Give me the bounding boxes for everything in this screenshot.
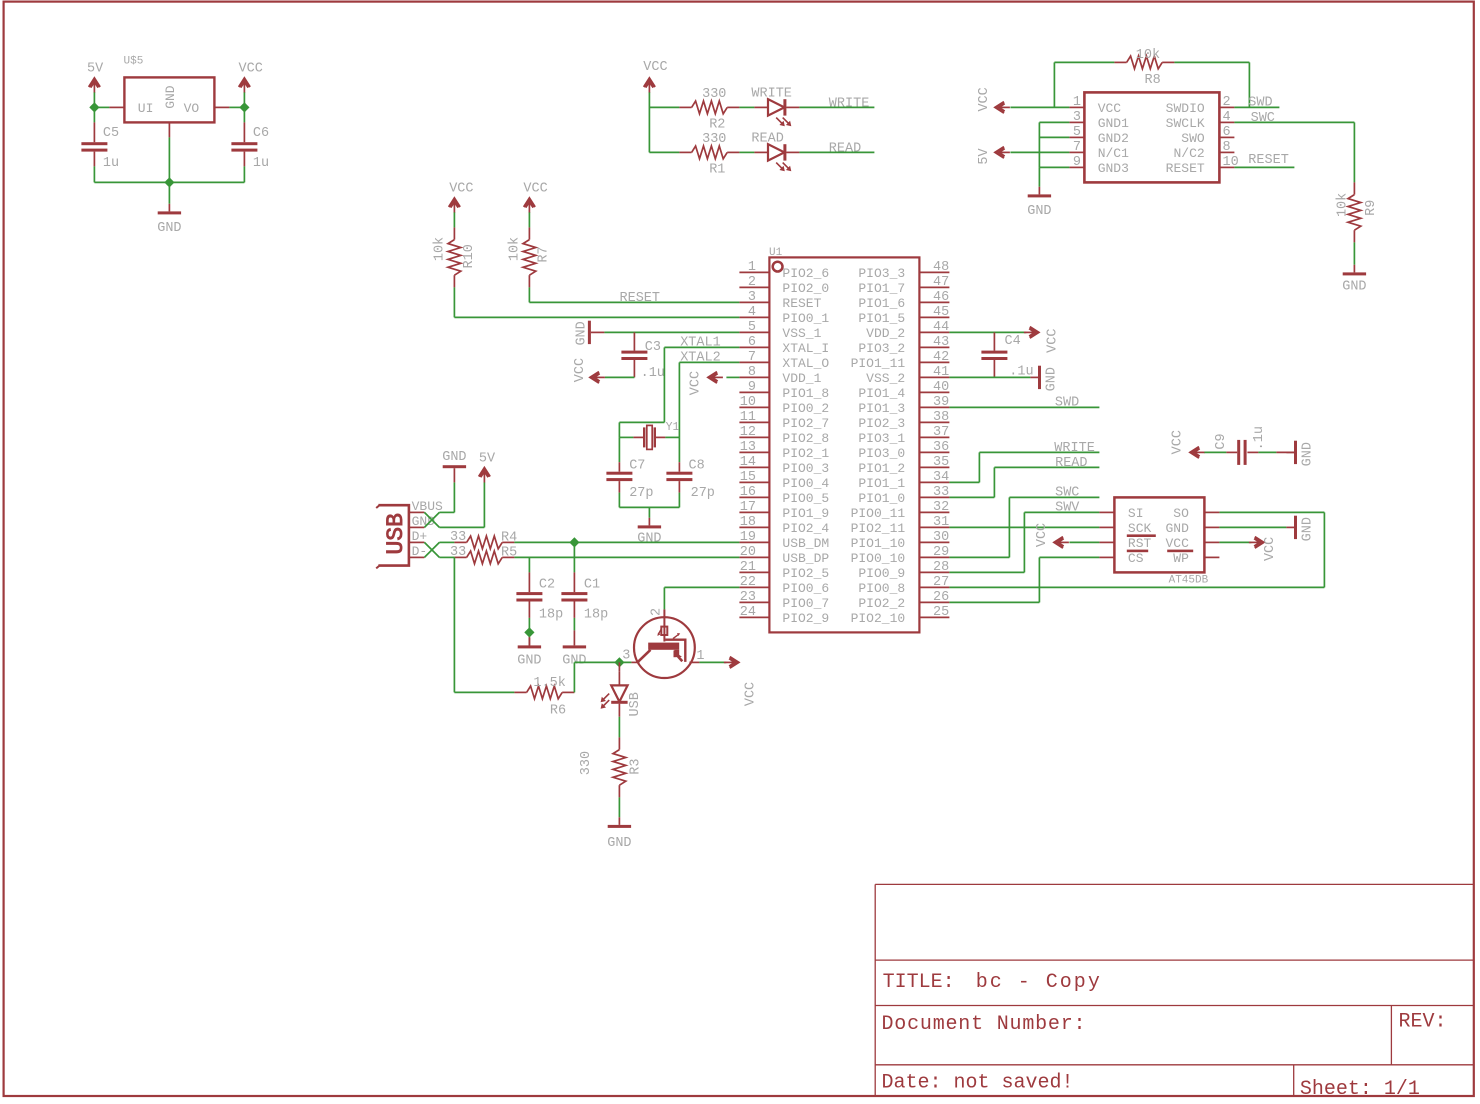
svg-text:22: 22 — [740, 575, 756, 590]
svg-text:6: 6 — [1223, 125, 1231, 140]
svg-text:GND: GND — [517, 653, 541, 668]
svg-text:WRITE: WRITE — [751, 87, 792, 102]
svg-text:.1u: .1u — [1252, 426, 1267, 450]
svg-text:10k: 10k — [433, 237, 448, 261]
svg-text:PIO1_10: PIO1_10 — [851, 536, 906, 551]
svg-text:PIO2_7: PIO2_7 — [782, 416, 829, 431]
svg-text:4: 4 — [1223, 110, 1231, 125]
svg-text:R4: R4 — [501, 530, 517, 545]
svg-text:SWC: SWC — [1055, 486, 1079, 501]
svg-text:29: 29 — [933, 545, 949, 560]
svg-text:USB: USB — [383, 513, 409, 554]
svg-text:GND: GND — [1301, 517, 1316, 541]
svg-text:1: 1 — [748, 260, 756, 275]
svg-text:N/C1: N/C1 — [1098, 146, 1129, 161]
svg-text:VCC: VCC — [1171, 430, 1186, 454]
svg-text:GND: GND — [442, 450, 466, 465]
svg-text:GND: GND — [157, 221, 181, 236]
svg-text:16: 16 — [740, 485, 756, 500]
svg-text:2: 2 — [748, 275, 756, 290]
svg-text:GND: GND — [1027, 204, 1051, 219]
svg-text:VBUS: VBUS — [412, 499, 443, 514]
svg-text:C3: C3 — [645, 340, 661, 355]
svg-text:PIO0_9: PIO0_9 — [858, 566, 905, 581]
svg-text:28: 28 — [933, 560, 949, 575]
svg-text:45: 45 — [933, 305, 949, 320]
svg-text:PIO2_1: PIO2_1 — [782, 446, 829, 461]
svg-text:PIO3_1: PIO3_1 — [858, 431, 905, 446]
svg-text:5: 5 — [748, 320, 756, 335]
svg-text:PIO1_7: PIO1_7 — [858, 281, 905, 296]
svg-text:Sheet: 1/1: Sheet: 1/1 — [1300, 1078, 1420, 1101]
svg-text:20: 20 — [740, 545, 756, 560]
svg-text:RESET: RESET — [1248, 153, 1289, 168]
svg-text:7: 7 — [1073, 140, 1081, 155]
svg-text:R9: R9 — [1364, 200, 1379, 216]
svg-text:GND: GND — [637, 531, 661, 546]
svg-text:VCC: VCC — [744, 682, 759, 706]
svg-text:33: 33 — [933, 485, 949, 500]
svg-text:VCC: VCC — [689, 371, 704, 395]
svg-text:3: 3 — [1073, 110, 1081, 125]
svg-text:47: 47 — [933, 275, 949, 290]
svg-text:34: 34 — [933, 470, 949, 485]
svg-text:C9: C9 — [1214, 433, 1229, 449]
svg-text:SO: SO — [1173, 506, 1189, 521]
svg-text:3: 3 — [748, 290, 756, 305]
svg-text:39: 39 — [933, 395, 949, 410]
svg-text:SWCLK: SWCLK — [1166, 116, 1205, 131]
svg-text:R3: R3 — [628, 758, 643, 774]
svg-text:10k: 10k — [1136, 48, 1160, 63]
svg-text:PIO2_6: PIO2_6 — [782, 266, 829, 281]
svg-text:VDD_1: VDD_1 — [782, 371, 821, 386]
svg-text:PIO3_2: PIO3_2 — [858, 341, 905, 356]
svg-text:18p: 18p — [584, 608, 608, 623]
svg-text:READ: READ — [829, 142, 861, 157]
svg-text:PIO2_9: PIO2_9 — [782, 611, 829, 626]
svg-text:PIO1_4: PIO1_4 — [858, 386, 905, 401]
svg-text:XTAL_O: XTAL_O — [782, 356, 829, 371]
svg-text:SCK: SCK — [1128, 521, 1152, 536]
svg-text:PIO1_2: PIO1_2 — [858, 461, 905, 476]
svg-text:46: 46 — [933, 290, 949, 305]
svg-text:14: 14 — [740, 455, 756, 470]
svg-text:XTAL_I: XTAL_I — [782, 341, 829, 356]
svg-text:.1u: .1u — [641, 366, 665, 381]
svg-text:U1: U1 — [769, 247, 783, 259]
svg-text:SWD: SWD — [1248, 96, 1272, 111]
svg-text:R8: R8 — [1145, 73, 1161, 88]
svg-text:PIO2_5: PIO2_5 — [782, 566, 829, 581]
svg-text:C5: C5 — [103, 126, 119, 141]
svg-text:C1: C1 — [584, 578, 600, 593]
svg-text:1: 1 — [1073, 95, 1081, 110]
svg-text:6: 6 — [748, 335, 756, 350]
svg-text:PIO1_9: PIO1_9 — [782, 506, 829, 521]
svg-text:PIO3_0: PIO3_0 — [858, 446, 905, 461]
svg-text:26: 26 — [933, 590, 949, 605]
svg-text:44: 44 — [933, 320, 949, 335]
svg-text:8: 8 — [1223, 140, 1231, 155]
svg-text:U$5: U$5 — [124, 56, 144, 68]
svg-text:C2: C2 — [539, 578, 555, 593]
svg-text:330: 330 — [579, 751, 594, 775]
svg-text:PIO0_7: PIO0_7 — [782, 596, 829, 611]
svg-text:5V: 5V — [479, 451, 496, 466]
svg-text:1u: 1u — [103, 156, 119, 171]
svg-text:42: 42 — [933, 350, 949, 365]
svg-text:PIO0_5: PIO0_5 — [782, 491, 829, 506]
svg-text:19: 19 — [740, 530, 756, 545]
svg-text:USB_DP: USB_DP — [782, 551, 829, 566]
svg-text:PIO2_4: PIO2_4 — [782, 521, 829, 536]
svg-text:PIO2_3: PIO2_3 — [858, 416, 905, 431]
svg-text:SWV: SWV — [1055, 501, 1080, 516]
svg-text:4: 4 — [748, 305, 756, 320]
svg-text:330: 330 — [702, 132, 726, 147]
svg-text:VCC: VCC — [449, 182, 473, 197]
svg-text:PIO1_3: PIO1_3 — [858, 401, 905, 416]
svg-text:SWDIO: SWDIO — [1166, 101, 1205, 116]
svg-text:GND: GND — [1301, 442, 1316, 466]
svg-text:40: 40 — [933, 380, 949, 395]
svg-text:WRITE: WRITE — [1054, 441, 1095, 456]
svg-text:PIO0_4: PIO0_4 — [782, 476, 829, 491]
svg-text:36: 36 — [933, 440, 949, 455]
svg-text:17: 17 — [740, 500, 756, 515]
svg-text:PIO0_11: PIO0_11 — [851, 506, 906, 521]
svg-text:13: 13 — [740, 440, 756, 455]
svg-text:SWO: SWO — [1181, 131, 1205, 146]
svg-text:RESET: RESET — [1166, 161, 1205, 176]
svg-text:38: 38 — [933, 410, 949, 425]
svg-text:48: 48 — [933, 260, 949, 275]
svg-text:VCC: VCC — [1165, 536, 1189, 551]
svg-text:GND: GND — [1342, 280, 1366, 295]
svg-text:25: 25 — [933, 605, 949, 620]
svg-text:1.5k: 1.5k — [533, 676, 565, 691]
svg-text:Date: not saved!: Date: not saved! — [882, 1072, 1074, 1095]
svg-text:GND1: GND1 — [1098, 116, 1129, 131]
svg-text:UI: UI — [138, 101, 154, 116]
svg-text:330: 330 — [702, 87, 726, 102]
svg-text:GND: GND — [607, 836, 631, 851]
svg-text:18: 18 — [740, 515, 756, 530]
svg-text:37: 37 — [933, 425, 949, 440]
svg-text:R6: R6 — [550, 703, 566, 718]
svg-text:USB: USB — [628, 692, 643, 716]
svg-text:READ: READ — [751, 132, 783, 147]
svg-text:VCC: VCC — [1098, 101, 1122, 116]
svg-text:RESET: RESET — [782, 296, 821, 311]
svg-text:RESET: RESET — [620, 291, 661, 306]
svg-text:VSS_1: VSS_1 — [782, 326, 821, 341]
svg-text:30: 30 — [933, 530, 949, 545]
svg-text:C6: C6 — [253, 126, 269, 141]
svg-text:VO: VO — [184, 101, 200, 116]
svg-text:35: 35 — [933, 455, 949, 470]
svg-text:R2: R2 — [709, 117, 725, 132]
svg-text:PIO2_8: PIO2_8 — [782, 431, 829, 446]
svg-text:7: 7 — [748, 350, 756, 365]
svg-text:9: 9 — [748, 380, 756, 395]
svg-text:VSS_2: VSS_2 — [866, 371, 905, 386]
svg-text:R1: R1 — [709, 162, 725, 177]
svg-text:41: 41 — [933, 365, 949, 380]
svg-text:VCC: VCC — [1263, 537, 1278, 561]
svg-text:PIO3_3: PIO3_3 — [858, 266, 905, 281]
svg-text:8: 8 — [748, 365, 756, 380]
svg-text:Document Number:: Document Number: — [882, 1013, 1087, 1036]
svg-text:1u: 1u — [253, 156, 269, 171]
svg-text:2: 2 — [650, 608, 665, 616]
svg-text:PIO2_10: PIO2_10 — [851, 611, 906, 626]
svg-text:18p: 18p — [539, 608, 563, 623]
svg-text:32: 32 — [933, 500, 949, 515]
svg-text:PIO0_1: PIO0_1 — [782, 311, 829, 326]
svg-text:PIO0_10: PIO0_10 — [851, 551, 906, 566]
svg-text:43: 43 — [933, 335, 949, 350]
svg-text:PIO0_2: PIO0_2 — [782, 401, 829, 416]
svg-text:D+: D+ — [412, 529, 428, 544]
svg-text:GND: GND — [1165, 521, 1189, 536]
svg-text:10k: 10k — [1335, 193, 1350, 217]
svg-text:15: 15 — [740, 470, 756, 485]
svg-text:VDD_2: VDD_2 — [866, 326, 905, 341]
svg-text:SWD: SWD — [1055, 395, 1079, 410]
svg-text:GND: GND — [1045, 367, 1060, 391]
svg-text:N/C2: N/C2 — [1173, 146, 1204, 161]
svg-text:TITLE:: TITLE: — [883, 971, 955, 994]
svg-text:33: 33 — [450, 530, 466, 545]
svg-text:10k: 10k — [508, 237, 523, 261]
svg-text:VCC: VCC — [239, 62, 263, 77]
svg-text:PIO1_1: PIO1_1 — [858, 476, 905, 491]
svg-text:24: 24 — [740, 605, 756, 620]
svg-text:USB_DM: USB_DM — [782, 536, 829, 551]
svg-text:33: 33 — [450, 545, 466, 560]
svg-text:2: 2 — [1223, 95, 1231, 110]
svg-text:5: 5 — [1073, 125, 1081, 140]
svg-text:C8: C8 — [689, 459, 705, 474]
svg-text:PIO1_8: PIO1_8 — [782, 386, 829, 401]
svg-text:SWC: SWC — [1251, 111, 1275, 126]
svg-text:R7: R7 — [537, 246, 552, 262]
svg-text:GND: GND — [163, 85, 178, 109]
svg-text:SI: SI — [1128, 506, 1144, 521]
svg-text:AT45DB: AT45DB — [1169, 574, 1209, 586]
svg-text:WRITE: WRITE — [829, 97, 870, 112]
svg-text:11: 11 — [740, 410, 756, 425]
svg-text:VCC: VCC — [573, 358, 588, 382]
svg-text:PIO1_0: PIO1_0 — [858, 491, 905, 506]
svg-text:REV:: REV: — [1399, 1011, 1447, 1034]
svg-text:5V: 5V — [87, 62, 104, 77]
svg-text:12: 12 — [740, 425, 756, 440]
svg-text:PIO2_11: PIO2_11 — [851, 521, 906, 536]
svg-text:27p: 27p — [691, 486, 715, 501]
svg-text:PIO0_6: PIO0_6 — [782, 581, 829, 596]
svg-text:RST: RST — [1128, 536, 1152, 551]
svg-text:27: 27 — [933, 575, 949, 590]
svg-text:PIO0_8: PIO0_8 — [858, 581, 905, 596]
svg-text:3: 3 — [622, 649, 630, 664]
svg-text:PIO1_6: PIO1_6 — [858, 296, 905, 311]
svg-text:VCC: VCC — [523, 182, 547, 197]
svg-text:PIO2_0: PIO2_0 — [782, 281, 829, 296]
svg-text:C4: C4 — [1005, 334, 1021, 349]
svg-text:21: 21 — [740, 560, 756, 575]
svg-text:PIO0_3: PIO0_3 — [782, 461, 829, 476]
svg-text:VCC: VCC — [1035, 523, 1050, 547]
svg-text:PIO1_11: PIO1_11 — [851, 356, 906, 371]
svg-text:GND2: GND2 — [1098, 131, 1129, 146]
svg-text:VCC: VCC — [1046, 329, 1061, 353]
svg-text:Y1: Y1 — [666, 421, 680, 434]
svg-text:C7: C7 — [629, 459, 645, 474]
svg-text:PIO2_2: PIO2_2 — [858, 596, 905, 611]
svg-text:bc - Copy: bc - Copy — [976, 971, 1102, 994]
svg-text:23: 23 — [740, 590, 756, 605]
svg-text:R5: R5 — [501, 545, 517, 560]
svg-text:PIO1_5: PIO1_5 — [858, 311, 905, 326]
svg-text:31: 31 — [933, 515, 949, 530]
svg-text:27p: 27p — [629, 486, 653, 501]
svg-text:5V: 5V — [977, 148, 992, 165]
svg-text:GND3: GND3 — [1098, 161, 1129, 176]
svg-text:VCC: VCC — [643, 60, 667, 75]
svg-text:WP: WP — [1173, 551, 1189, 566]
svg-text:9: 9 — [1073, 155, 1081, 170]
svg-text:GND: GND — [575, 321, 590, 345]
svg-text:CS: CS — [1128, 551, 1144, 566]
svg-text:R10: R10 — [462, 244, 477, 268]
svg-text:READ: READ — [1055, 456, 1087, 471]
svg-text:VCC: VCC — [977, 87, 992, 111]
svg-text:10: 10 — [740, 395, 756, 410]
